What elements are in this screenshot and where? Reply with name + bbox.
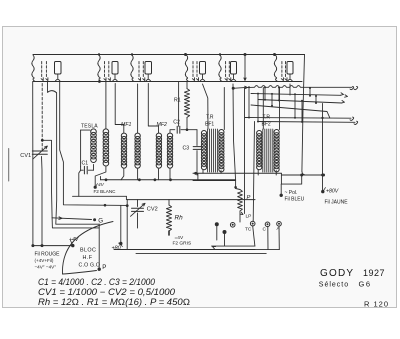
svg-text:TC: TC [245,227,252,233]
svg-text:F2 GRIS: F2 GRIS [173,241,192,247]
svg-text:G6: G6 [359,280,372,289]
svg-text:Sélecto: Sélecto [319,282,349,289]
svg-text:Rh: Rh [175,215,184,222]
svg-text:+80V: +80V [326,189,339,195]
svg-text:C: C [263,227,267,233]
svg-text:(+4V+Fil): (+4V+Fil) [35,258,54,263]
svg-text:CV1 = 1/1000 − CV2 = 0,5/100: CV1 = 1/1000 − CV2 = 0,5/1000 [38,287,175,297]
svg-text:BLOC: BLOC [80,248,96,254]
svg-text:R 120: R 120 [364,300,389,309]
svg-text:GODY: GODY [320,268,354,279]
svg-text:=4V: =4V [175,235,184,241]
svg-text:C1 = 4/1000 . C2 . C3 = 2/1000: C1 = 4/1000 . C2 . C3 = 2/1000 [38,277,155,287]
svg-text:C1: C1 [82,161,89,167]
svg-text:CV2: CV2 [147,207,158,213]
svg-text:1927: 1927 [363,268,385,278]
svg-text:BF1: BF1 [205,122,214,128]
svg-text:LP: LP [246,214,252,220]
svg-text:+80: +80 [112,246,121,252]
svg-text:−4V° −4V°: −4V° −4V° [35,265,57,270]
svg-text:G: G [98,218,103,225]
svg-text:C3: C3 [183,146,190,152]
svg-text:Fil JAUNE: Fil JAUNE [325,200,349,206]
svg-text:CV1: CV1 [20,153,31,159]
svg-text:R1: R1 [174,98,181,104]
svg-text:P: P [102,264,106,271]
svg-text:Fil BLEU: Fil BLEU [285,197,305,203]
svg-text:H.F: H.F [83,255,93,261]
svg-text:4V: 4V [98,182,105,188]
svg-text:C.O G.O: C.O G.O [79,263,101,269]
svg-text:T.R: T.R [206,115,214,121]
svg-text:TESLA: TESLA [81,124,98,130]
svg-text:F2 BLANC: F2 BLANC [94,189,117,194]
svg-text:MF1: MF1 [121,122,131,128]
svg-text:~ Pol.: ~ Pol. [285,190,298,196]
svg-text:Rh = 12Ω . R1 = MΩ(16) . P = 4: Rh = 12Ω . R1 = MΩ(16) . P = 450Ω [38,297,190,307]
svg-text:Fil ROUGE: Fil ROUGE [35,252,61,258]
